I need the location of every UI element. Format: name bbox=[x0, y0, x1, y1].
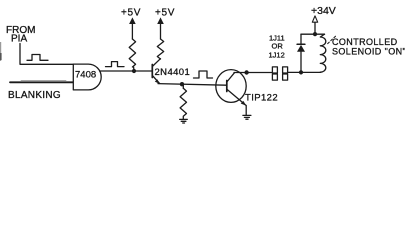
svg-text:TIP122: TIP122 bbox=[245, 93, 278, 104]
svg-text:CONTROLLED: CONTROLLED bbox=[332, 37, 398, 47]
svg-text:SOLENOID "ON": SOLENOID "ON" bbox=[332, 47, 405, 57]
svg-text:1J12: 1J12 bbox=[269, 51, 285, 60]
svg-text:+5V: +5V bbox=[121, 8, 141, 19]
svg-text:OR: OR bbox=[272, 42, 284, 51]
svg-text:+5V: +5V bbox=[155, 8, 175, 19]
svg-text:BLANKING: BLANKING bbox=[8, 90, 61, 101]
svg-text:+34V: +34V bbox=[311, 5, 336, 17]
svg-text:7408: 7408 bbox=[75, 69, 96, 80]
svg-text:2N4401: 2N4401 bbox=[155, 67, 191, 78]
svg-text:PIA: PIA bbox=[11, 34, 27, 45]
